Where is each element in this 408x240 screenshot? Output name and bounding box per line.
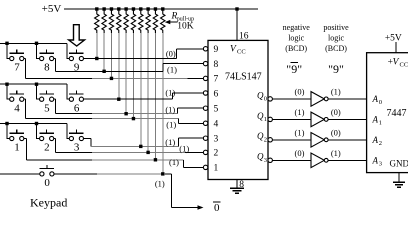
wire R8 to line xyxy=(147,33,149,152)
wire row1 bus xyxy=(0,42,67,44)
pushbutton key 3 xyxy=(69,130,83,141)
wire +5V to 7447 xyxy=(395,42,397,53)
svg-text:3: 3 xyxy=(74,142,80,154)
svg-text:2: 2 xyxy=(214,149,219,159)
svg-text:5: 5 xyxy=(214,105,219,115)
svg-text:CC: CC xyxy=(400,62,408,69)
label key 6 xyxy=(74,102,80,114)
svg-text:(1): (1) xyxy=(167,64,177,74)
label U6 7447 xyxy=(387,108,407,119)
node row1 bus dot B xyxy=(35,42,38,45)
svg-text:1: 1 xyxy=(214,164,219,174)
svg-text:(1): (1) xyxy=(165,88,175,98)
wire row1 drop right xyxy=(67,43,69,58)
svg-text:A: A xyxy=(372,155,379,165)
resistor R7 (10K pull-up) xyxy=(139,9,143,33)
wire key0 left xyxy=(0,173,40,175)
inverter U5 xyxy=(311,153,328,168)
svg-text:6: 6 xyxy=(214,89,219,99)
pushbutton key 1 xyxy=(10,130,24,141)
label Q1 xyxy=(257,111,267,123)
node junction rail-R9 xyxy=(154,7,157,10)
svg-text:1: 1 xyxy=(14,142,20,154)
wire key2 to pin2 xyxy=(54,139,204,155)
label state pin6 (1) xyxy=(165,88,175,98)
wire Q2 to inverter xyxy=(272,139,311,141)
node junction rail-R6 xyxy=(132,7,135,10)
svg-text:(1): (1) xyxy=(165,137,175,147)
wire row1 drop left xyxy=(7,43,10,58)
node junction rail-Vcc xyxy=(235,7,238,10)
label pin number 5 xyxy=(214,105,219,115)
wire row3 bus xyxy=(0,123,67,125)
label pin number 6 xyxy=(214,89,219,99)
svg-text:CC: CC xyxy=(237,49,246,56)
label state pin3 (1) xyxy=(165,137,175,147)
pin bubble input 3 xyxy=(203,136,207,140)
wire R3 to line xyxy=(110,33,112,78)
label U1 74LS147 xyxy=(225,72,262,83)
svg-text:Keypad: Keypad xyxy=(30,196,67,210)
inverter U3 xyxy=(311,112,328,127)
ground U1 xyxy=(230,188,244,193)
svg-text:1: 1 xyxy=(379,120,382,127)
svg-text:positive: positive xyxy=(323,23,349,32)
resistor R1 (10K pull-up) xyxy=(95,9,99,33)
pin bubble input 9 xyxy=(203,47,207,51)
svg-text:4: 4 xyxy=(214,120,219,130)
resistor R4 (10K pull-up) xyxy=(117,9,121,33)
wire inverter U4 to A2 xyxy=(328,139,367,141)
wire Q1 to inverter xyxy=(272,118,311,120)
wire row2 drop right xyxy=(67,84,69,99)
svg-text:(1): (1) xyxy=(295,127,305,137)
pin bubble output Q1 xyxy=(268,117,272,121)
wire R1 to line xyxy=(96,33,98,59)
label pin number 7 xyxy=(214,75,219,85)
press arrow (hollow) xyxy=(69,25,85,46)
svg-text:(1): (1) xyxy=(295,107,305,117)
svg-text:(0): (0) xyxy=(295,148,305,158)
svg-text:logic: logic xyxy=(288,33,304,42)
node row1 bus dot A xyxy=(5,42,8,45)
svg-text:8: 8 xyxy=(44,62,50,74)
svg-text:0: 0 xyxy=(214,202,220,214)
power +5V label (right) xyxy=(385,34,402,44)
wire inverter U3 to A1 xyxy=(328,118,367,120)
wire U1 gnd stub xyxy=(236,180,238,189)
label key 8 xyxy=(44,62,50,74)
label U6 +Vcc xyxy=(388,58,408,69)
wire row3 drop left xyxy=(7,124,10,139)
label A3 xyxy=(372,155,382,167)
wire row2 drop left xyxy=(7,84,10,99)
label inv3 out (1) xyxy=(331,148,341,158)
wire key9 to pin9 xyxy=(84,49,204,60)
pin bubble output Q3 xyxy=(268,158,272,162)
pushbutton key 8 xyxy=(39,50,53,61)
node junction rail-R1 xyxy=(95,7,98,10)
svg-text:(1): (1) xyxy=(331,87,341,97)
wire key4 to pin4 xyxy=(24,99,204,123)
svg-text:+5V: +5V xyxy=(385,34,402,44)
label key 5 xyxy=(44,102,50,114)
label key 3 xyxy=(74,142,80,154)
label pin number 8 xyxy=(214,60,219,70)
svg-text:7: 7 xyxy=(14,62,20,74)
label state pin1 (1) xyxy=(169,157,179,167)
pin bubble input 4 xyxy=(203,121,207,125)
label key 7 xyxy=(14,62,20,74)
wire key8 to pin8 xyxy=(54,59,204,74)
wire row2 drop mid xyxy=(37,84,40,99)
label pin 16 xyxy=(239,32,249,42)
pushbutton key 0 xyxy=(40,165,54,176)
node row3 bus dot A xyxy=(5,122,8,125)
label Keypad xyxy=(30,196,67,210)
label quoted 9 xyxy=(328,62,344,76)
wire key0 out xyxy=(54,172,200,207)
wire key3 to pin3 xyxy=(84,138,204,148)
pin bubble input 2 xyxy=(203,150,207,154)
label 0-bar output xyxy=(213,202,221,214)
svg-text:2: 2 xyxy=(379,140,382,147)
arrow to R10 xyxy=(165,20,178,24)
label pin number 9 xyxy=(214,45,219,55)
label state key0 (1) xyxy=(155,178,165,188)
wire row3 drop mid xyxy=(37,124,40,139)
wire key7 to pin7 xyxy=(24,59,204,81)
pin bubble input 1 xyxy=(203,165,207,169)
resistor R8 (10K pull-up) xyxy=(146,9,150,33)
arrowhead 0-bar xyxy=(198,205,204,210)
svg-text:"9": "9" xyxy=(328,62,344,76)
wire R10 to line xyxy=(162,33,164,174)
svg-text:0: 0 xyxy=(44,177,50,189)
label inv1 out (0) xyxy=(331,107,341,117)
wire R7 to line xyxy=(140,33,142,146)
wire U6 gnd stub xyxy=(398,173,400,183)
pushbutton key 7 xyxy=(10,50,24,61)
svg-text:8: 8 xyxy=(214,60,219,70)
wire row2 bus xyxy=(0,83,67,85)
label pin number 4 xyxy=(214,120,219,130)
svg-text:(0): (0) xyxy=(295,87,305,97)
node junction rail-R10 xyxy=(161,7,164,10)
resistor R6 (10K pull-up) xyxy=(131,9,135,33)
svg-text:negative: negative xyxy=(283,23,311,32)
label pin number 3 xyxy=(214,135,219,145)
IC U6 7447 box xyxy=(367,53,408,173)
svg-text:A: A xyxy=(372,135,379,145)
label Q2 xyxy=(257,131,267,143)
label inv0 in (0) xyxy=(295,87,305,97)
label positive logic (BCD) xyxy=(323,23,349,53)
pin bubble output Q0 xyxy=(268,97,272,101)
label key 2 xyxy=(44,142,50,154)
label inv0 out (1) xyxy=(331,87,341,97)
label Q0 xyxy=(257,90,267,102)
svg-text:A: A xyxy=(372,94,379,104)
svg-text:(0): (0) xyxy=(331,127,341,137)
label inv2 out (0) xyxy=(331,127,341,137)
label state pin8 (1) xyxy=(167,64,177,74)
svg-text:5: 5 xyxy=(44,102,50,114)
power +5V label (top left) xyxy=(42,3,62,15)
node row2 bus dot A xyxy=(5,83,8,86)
label inv1 in (1) xyxy=(295,107,305,117)
node junction rail-R8 xyxy=(146,7,149,10)
node row3 bus dot B xyxy=(35,122,38,125)
svg-text:A: A xyxy=(372,114,379,124)
pin bubble output Q2 xyxy=(268,138,272,142)
label Q3 xyxy=(257,152,267,164)
resistor R9 (10K pull-up) xyxy=(153,9,157,33)
svg-text:2: 2 xyxy=(264,136,267,143)
wire R9 to line xyxy=(154,33,156,160)
label key 9 xyxy=(74,62,80,74)
label U1 Vcc xyxy=(230,45,246,56)
inverter U4 xyxy=(311,133,328,148)
svg-text:+5V: +5V xyxy=(42,3,62,15)
pushbutton key 5 xyxy=(39,90,53,101)
label A0 xyxy=(372,94,382,106)
node row2 bus dot B xyxy=(35,83,38,86)
pin bubble input 7 xyxy=(203,76,207,80)
node junction rail-R5 xyxy=(124,7,127,10)
resistor R3 (10K pull-up) xyxy=(109,9,113,33)
node junction rail-R3 xyxy=(110,7,113,10)
label A1 xyxy=(372,114,382,126)
wire key5 to pin5 xyxy=(54,99,204,115)
svg-text:(1): (1) xyxy=(169,157,179,167)
label key 0 xyxy=(44,177,50,189)
svg-text:(BCD): (BCD) xyxy=(285,44,307,53)
wire key6 to pin6 xyxy=(84,93,204,101)
label negative logic (BCD) xyxy=(283,23,311,53)
wire inverter U5 to A3 xyxy=(328,159,367,161)
label inv3 in (0) xyxy=(295,148,305,158)
label key 1 xyxy=(14,142,20,154)
label state pin4 (1) xyxy=(166,120,176,130)
wire inverter U2 to A0 xyxy=(328,98,367,100)
label key 4 xyxy=(14,102,20,114)
svg-text:(BCD): (BCD) xyxy=(325,44,347,53)
label inv2 in (1) xyxy=(295,127,305,137)
pushbutton key 2 xyxy=(39,130,53,141)
wire row1 drop mid xyxy=(37,43,40,58)
wire R6 to line xyxy=(132,33,134,119)
inverter U2 xyxy=(311,92,328,107)
wire R4 to line xyxy=(118,33,120,99)
resistor R2 (10K pull-up) xyxy=(102,9,106,33)
resistor R5 (10K pull-up) xyxy=(124,9,128,33)
label A2 xyxy=(372,135,382,147)
svg-text:(1): (1) xyxy=(166,120,176,130)
label pin number 2 xyxy=(214,149,219,159)
svg-text:6: 6 xyxy=(74,102,80,114)
node junction rail-R4 xyxy=(117,7,120,10)
svg-text:(1): (1) xyxy=(165,105,175,115)
svg-text:logic: logic xyxy=(328,33,344,42)
svg-text:3: 3 xyxy=(214,135,219,145)
svg-text:10K: 10K xyxy=(177,22,194,32)
resistor R10 (10K pull-up) xyxy=(161,9,165,33)
label state pin9 (0) xyxy=(166,49,176,59)
label Rpull-up 10K xyxy=(171,12,195,32)
svg-text:9: 9 xyxy=(214,45,219,55)
svg-text:7: 7 xyxy=(214,75,219,85)
svg-text:0: 0 xyxy=(379,99,382,106)
svg-text:2: 2 xyxy=(44,142,50,154)
svg-text:GND: GND xyxy=(390,159,408,169)
svg-text:(1): (1) xyxy=(331,148,341,158)
label pin 8 xyxy=(239,180,244,190)
pin bubble input 6 xyxy=(203,91,207,95)
wire Q3 to inverter xyxy=(272,159,311,161)
pin bubble input 8 xyxy=(203,61,207,65)
wire +5V rail xyxy=(64,8,258,10)
wire R5 to line xyxy=(125,33,127,114)
wire R2 to line xyxy=(103,33,105,71)
svg-text:74LS147: 74LS147 xyxy=(225,72,262,83)
svg-text:(1): (1) xyxy=(155,178,165,188)
svg-text:"9": "9" xyxy=(286,62,302,76)
wire row3 drop right xyxy=(67,124,69,139)
svg-text:(0): (0) xyxy=(166,49,176,59)
label quoted 9-bar xyxy=(286,62,302,76)
svg-text:3: 3 xyxy=(264,157,267,164)
wire Vcc drop xyxy=(236,9,238,40)
label U6 GND xyxy=(390,159,408,169)
node junction rail-R2 xyxy=(102,7,105,10)
svg-text:3: 3 xyxy=(379,161,382,168)
wire Q0 to inverter xyxy=(272,98,311,100)
svg-text:4: 4 xyxy=(14,102,20,114)
svg-text:0: 0 xyxy=(264,96,267,103)
node junction rail-R7 xyxy=(139,7,142,10)
svg-text:(0): (0) xyxy=(331,107,341,117)
label state pin5 (1) xyxy=(165,105,175,115)
ground U6 xyxy=(393,182,405,187)
pin bubble input 5 xyxy=(203,106,207,110)
svg-text:(1): (1) xyxy=(179,143,189,153)
wire key1 to pin1 xyxy=(24,139,204,168)
pushbutton key 4 xyxy=(10,90,24,101)
pushbutton key 6 xyxy=(69,90,83,101)
label pin number 1 xyxy=(214,164,219,174)
svg-text:7447: 7447 xyxy=(387,108,407,119)
IC U1 74LS147 box xyxy=(208,40,268,179)
pushbutton key 9 xyxy=(69,50,83,61)
svg-text:1: 1 xyxy=(264,116,267,123)
label state pin2 (1) xyxy=(179,143,189,153)
